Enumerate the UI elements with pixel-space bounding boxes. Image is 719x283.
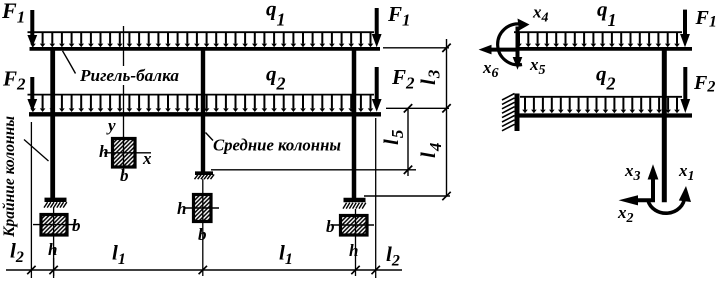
svg-text:h: h [48,240,57,259]
middle column [201,51,205,172]
extension line beam2 level [386,107,449,109]
distributed load q2 (left diagram) [28,95,375,112]
distributed load q1 (left diagram) [28,32,375,47]
beam 2 (right diagram) [519,113,692,117]
force F2 right arrow (left diagram) [372,67,382,112]
extension stub left column [53,258,55,278]
right column cross-section [332,209,374,276]
extension line right beam end [375,118,377,278]
dimension ticks bottom [27,266,380,274]
svg-text:Средние колонны: Средние колонны [213,136,341,155]
beam 1 (right diagram) [516,47,692,51]
extension line left beam end [30,122,32,278]
svg-text:b: b [120,166,129,185]
beam cross-section (x-y axes) [104,136,151,173]
beam 1 (top girder) [30,47,381,51]
leader line to girder label [63,51,76,74]
centerline of beam section [123,26,125,136]
left column [50,51,55,199]
distributed load q2 (right diagram) [520,97,682,113]
leader line to edge columns label [24,140,49,162]
support of right column [343,200,366,209]
dimension line l3-l4 [446,39,448,197]
support of middle column [195,173,215,179]
extension line edge support level [364,195,450,197]
svg-text:y: y [106,116,116,135]
extension line middle support level [211,169,416,171]
svg-text:b: b [326,217,335,236]
dimension line l5 [407,108,409,176]
support of left column [44,200,67,208]
extension line beam1 level [383,47,449,49]
distributed load q1 (right diagram) [514,32,682,47]
leader line to middle columns label [206,133,214,141]
beam 2 (lower girder) [29,112,381,116]
svg-text:b: b [198,225,207,244]
svg-text:b: b [72,216,81,235]
fixed wall support (right diagram) [502,94,517,132]
svg-text:Крайние колонны: Крайние колонны [1,116,18,238]
force F2 left arrow [27,77,37,112]
svg-text:x: x [142,149,152,168]
force F2 arrow (right diagram) [680,67,690,113]
svg-text:h: h [177,199,186,218]
force F1 right arrow (left diagram) [372,8,382,47]
bottom dimension line [6,269,402,271]
svg-text:h: h [349,241,358,260]
unknown x3 up arrow [648,164,659,202]
middle column cross-section [185,179,219,276]
unknown x6 left arrow [479,45,518,55]
force F1 left arrow [27,10,37,47]
ticks vertical dimensions [404,44,451,201]
svg-text:h: h [99,142,108,161]
unknown x5 down arrow [513,27,523,70]
unknown x2 left arrow [619,195,655,205]
unknown x1 moment arc [648,186,691,213]
force F1 arrow (right diagram) [680,10,690,48]
svg-text:Ригель-балка: Ригель-балка [79,66,180,85]
unknown x4 moment arc [498,19,530,65]
right column [352,51,357,199]
column (right diagram) [662,51,667,203]
left column cross-section [33,207,77,276]
